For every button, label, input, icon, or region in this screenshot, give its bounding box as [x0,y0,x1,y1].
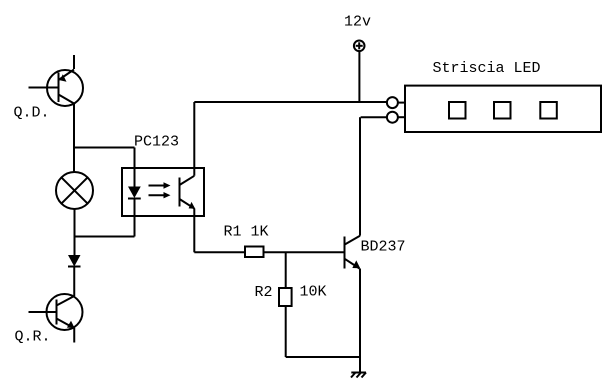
svg-text:R2: R2 [255,284,273,301]
svg-text:Q.R.: Q.R. [15,329,51,346]
svg-text:PC123: PC123 [134,134,179,151]
svg-text:Striscia LED: Striscia LED [433,60,541,77]
svg-text:12v: 12v [344,14,371,31]
svg-text:10K: 10K [300,284,327,301]
svg-text:BD237: BD237 [361,239,406,256]
svg-text:R1 1K: R1 1K [224,224,269,241]
svg-text:Q.D.: Q.D. [14,105,50,122]
